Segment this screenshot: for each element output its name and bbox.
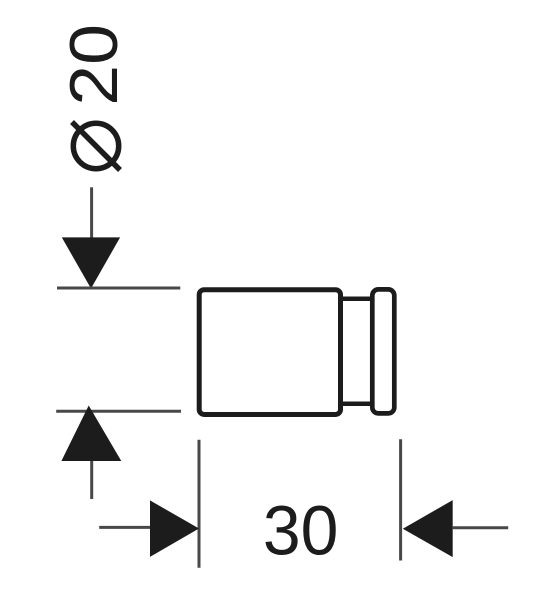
arrowhead right-pointing (30 left)	[150, 500, 199, 557]
diameter symbol circle	[73, 123, 118, 168]
diameter label "20" (rotated)	[56, 24, 132, 106]
arrowhead left-pointing (30 right)	[403, 500, 453, 557]
extension line left (width 30, left)	[198, 440, 201, 568]
part body (main cylinder)	[199, 290, 340, 415]
svg-text:30: 30	[263, 492, 339, 570]
extension line right (width 30, right)	[399, 439, 402, 560]
dimension tail left (30)	[99, 526, 150, 529]
arrowhead down (Ø20 top)	[62, 237, 120, 288]
svg-text:20: 20	[56, 24, 132, 106]
arrowhead up (Ø20 bottom)	[61, 406, 121, 462]
extension line top (body top edge)	[57, 287, 180, 290]
end cap (pill)	[372, 289, 394, 413]
dimension line lower (vertical, Ø20)	[90, 461, 93, 499]
neck bottom line	[341, 402, 373, 407]
neck top line	[341, 297, 373, 302]
dimension line upper (vertical, Ø20)	[90, 187, 93, 240]
dimension tail right (30)	[453, 526, 509, 529]
width label 30	[263, 492, 339, 570]
extension line bottom (body bottom edge)	[56, 410, 181, 413]
diameter symbol slash	[72, 122, 120, 170]
